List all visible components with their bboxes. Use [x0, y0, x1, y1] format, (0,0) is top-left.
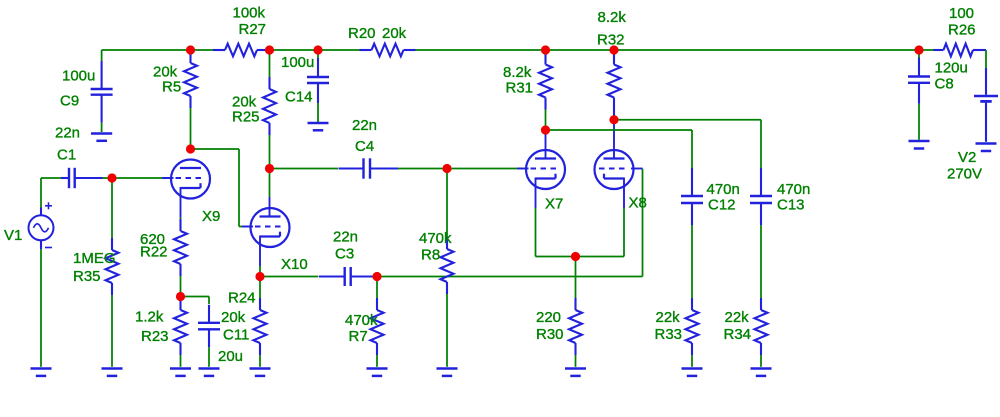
svg-text:X9: X9 — [202, 208, 220, 225]
svg-text:R26: R26 — [948, 21, 976, 38]
svg-text:R22: R22 — [140, 244, 168, 261]
svg-text:20k: 20k — [382, 25, 407, 42]
svg-text:C4: C4 — [355, 138, 374, 155]
svg-text:C1: C1 — [57, 147, 76, 164]
svg-text:R24: R24 — [228, 289, 256, 306]
svg-text:C9: C9 — [60, 93, 79, 110]
svg-text:C12: C12 — [708, 196, 736, 213]
svg-text:R25: R25 — [232, 109, 260, 126]
svg-text:R7: R7 — [349, 328, 368, 345]
svg-text:8.2k: 8.2k — [598, 9, 627, 26]
svg-text:22n: 22n — [352, 117, 377, 134]
svg-text:X10: X10 — [281, 256, 308, 273]
svg-text:V2: V2 — [958, 149, 976, 166]
svg-text:1MEG: 1MEG — [73, 250, 116, 267]
svg-text:R35: R35 — [73, 268, 101, 285]
svg-text:120u: 120u — [935, 60, 968, 77]
svg-text:22k: 22k — [656, 309, 681, 326]
svg-text:22k: 22k — [725, 309, 750, 326]
svg-text:220: 220 — [536, 309, 561, 326]
svg-text:C11: C11 — [223, 327, 249, 344]
svg-text:20u: 20u — [218, 348, 243, 365]
svg-text:22n: 22n — [55, 125, 80, 142]
svg-text:V1: V1 — [4, 227, 22, 244]
svg-text:R34: R34 — [724, 326, 752, 343]
svg-text:100k: 100k — [233, 5, 266, 22]
svg-text:R30: R30 — [536, 326, 564, 343]
svg-text:R8: R8 — [421, 246, 440, 263]
svg-text:X8: X8 — [629, 195, 647, 212]
svg-text:C3: C3 — [335, 245, 354, 262]
svg-text:R32: R32 — [597, 31, 625, 48]
svg-text:C14: C14 — [285, 89, 313, 106]
svg-text:R27: R27 — [239, 21, 267, 38]
svg-text:R33: R33 — [655, 326, 683, 343]
svg-text:1.2k: 1.2k — [135, 308, 164, 325]
svg-text:X7: X7 — [545, 196, 563, 213]
svg-text:R20: R20 — [348, 25, 376, 42]
svg-text:20k: 20k — [221, 309, 246, 326]
svg-text:22n: 22n — [333, 229, 358, 246]
svg-text:C13: C13 — [777, 196, 805, 213]
svg-text:R31: R31 — [506, 80, 534, 97]
svg-text:470k: 470k — [345, 312, 378, 329]
svg-text:100: 100 — [949, 5, 974, 22]
svg-text:100u: 100u — [62, 67, 95, 84]
svg-text:C8: C8 — [935, 75, 954, 92]
svg-text:270V: 270V — [947, 166, 982, 183]
svg-text:8.2k: 8.2k — [503, 64, 532, 81]
svg-text:R5: R5 — [162, 79, 181, 96]
svg-text:100u: 100u — [281, 54, 314, 71]
svg-text:R23: R23 — [141, 328, 169, 345]
svg-text:470k: 470k — [419, 230, 452, 247]
